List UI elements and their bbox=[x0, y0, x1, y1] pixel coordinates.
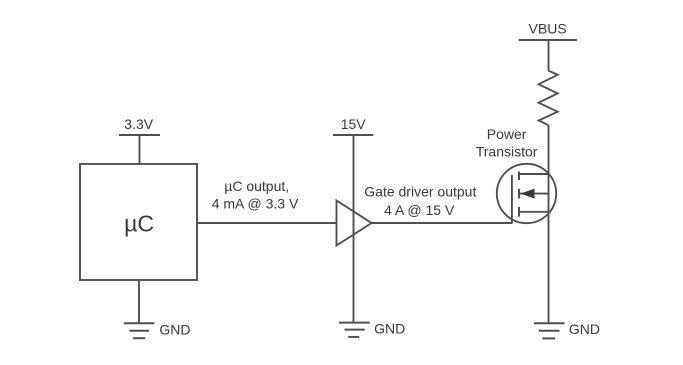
transistor Q1 body stub bbox=[519, 193, 549, 195]
ground symbol left bbox=[124, 323, 155, 338]
transistor Q1 gate bar bbox=[511, 175, 513, 224]
resistor R1 bbox=[539, 71, 558, 126]
transistor Q1 channel ticks bbox=[518, 172, 520, 217]
supply 15V bar bbox=[333, 134, 373, 136]
svg-text:GND: GND bbox=[159, 322, 190, 338]
svg-text:VBUS: VBUS bbox=[529, 21, 567, 37]
wire resistor to transistor to ground bbox=[548, 125, 550, 323]
ground symbol middle bbox=[339, 323, 370, 337]
supply VBUS bar bbox=[519, 39, 577, 41]
wire box to ground bbox=[138, 280, 140, 323]
svg-text:4 mA @ 3.3 V: 4 mA @ 3.3 V bbox=[212, 195, 299, 211]
wire uC output bbox=[197, 222, 337, 224]
wire 15V rail through driver to ground bbox=[353, 135, 355, 323]
svg-text:GND: GND bbox=[374, 321, 405, 337]
svg-text:µC output,: µC output, bbox=[224, 178, 289, 194]
transistor Q1 source stub bbox=[519, 211, 549, 213]
svg-text:µC: µC bbox=[124, 210, 154, 236]
ground symbol right bbox=[534, 323, 565, 338]
svg-text:Power: Power bbox=[487, 126, 527, 142]
transistor Q1 drain stub bbox=[519, 173, 549, 175]
transistor Q1 body arrow bbox=[521, 189, 535, 199]
svg-text:GND: GND bbox=[569, 321, 600, 337]
transistor Q1 circle bbox=[497, 164, 556, 223]
svg-text:4 A @ 15 V: 4 A @ 15 V bbox=[384, 202, 455, 218]
svg-text:Gate driver output: Gate driver output bbox=[364, 183, 476, 199]
supply 3.3V bar bbox=[119, 134, 160, 136]
wire VBUS to resistor bbox=[548, 40, 550, 71]
wire 3.3V to box bbox=[139, 135, 141, 164]
wire gate driver output bbox=[372, 222, 512, 224]
svg-text:3.3V: 3.3V bbox=[124, 116, 153, 132]
buffer U2 gate driver triangle bbox=[337, 201, 372, 246]
svg-text:Transistor: Transistor bbox=[476, 144, 538, 160]
microcontroller U1 box bbox=[80, 164, 197, 280]
svg-text:15V: 15V bbox=[341, 116, 367, 132]
